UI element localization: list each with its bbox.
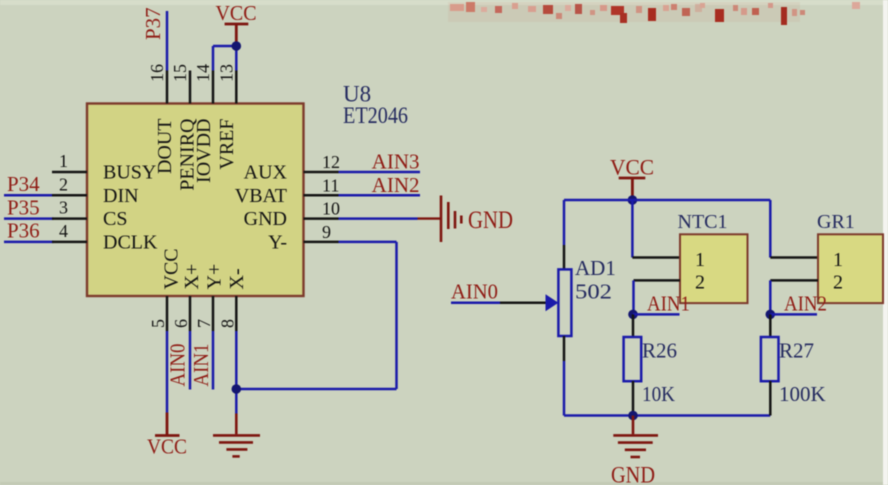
resistor R26 body xyxy=(624,337,642,381)
pin 2 DIN stub xyxy=(52,194,87,197)
thermistor NTC1 body xyxy=(680,234,748,303)
svg-text:AIN3: AIN3 xyxy=(372,150,420,174)
wire P35 xyxy=(4,217,54,220)
junction dot VCC right xyxy=(628,195,638,205)
resistor R27 body xyxy=(761,337,779,381)
junction dot VCC top xyxy=(232,41,242,51)
svg-text:2: 2 xyxy=(59,174,68,194)
svg-text:AIN2: AIN2 xyxy=(784,292,827,316)
wire AIN0 xyxy=(451,301,500,304)
photoresistor GR1 body xyxy=(818,234,883,303)
pin 12 AUX stub xyxy=(304,171,339,174)
wire R26 to ground rail xyxy=(632,381,635,416)
wire NTC1 pin2 to AIN1 node xyxy=(634,280,681,314)
junction dot ground rail xyxy=(628,411,638,421)
svg-text:12: 12 xyxy=(322,152,340,172)
svg-text:GND: GND xyxy=(244,208,287,230)
svg-text:8: 8 xyxy=(217,319,237,328)
svg-text:P36: P36 xyxy=(7,219,40,243)
svg-text:X-: X- xyxy=(226,268,248,289)
junction dot AIN2 xyxy=(766,310,776,320)
svg-text:6: 6 xyxy=(171,319,191,328)
svg-text:ET2046: ET2046 xyxy=(343,103,408,128)
wire VCC to pins 13,14 xyxy=(213,46,236,71)
wire pin 9 to bottom node xyxy=(236,242,396,389)
svg-text:X+: X+ xyxy=(181,264,203,290)
pin 11 VBAT stub xyxy=(304,194,339,197)
pin 9 Y- stub xyxy=(304,241,339,244)
potentiometer AD1 body xyxy=(558,269,571,336)
svg-text:VCC: VCC xyxy=(216,1,257,25)
wire P36 xyxy=(4,241,54,244)
earth ground below chip xyxy=(213,414,260,457)
svg-text:11: 11 xyxy=(322,175,339,195)
svg-text:7: 7 xyxy=(194,319,214,328)
svg-text:VBAT: VBAT xyxy=(235,185,287,207)
wire AIN2 xyxy=(339,194,421,197)
pot AD1 top pin stub xyxy=(563,245,566,270)
svg-text:AIN0: AIN0 xyxy=(166,344,190,387)
wire AIN2 node to R27 xyxy=(769,314,772,337)
wire pot to bottom rail xyxy=(563,361,566,416)
svg-text:R26: R26 xyxy=(642,339,677,363)
svg-text:VREF: VREF xyxy=(216,118,238,169)
wire AIN1 (pin7) xyxy=(212,331,215,390)
svg-text:AUX: AUX xyxy=(244,162,288,184)
svg-text:P34: P34 xyxy=(7,172,40,196)
svg-text:13: 13 xyxy=(216,64,236,82)
pin 13 VREF stub xyxy=(235,71,238,104)
wire top rail xyxy=(564,199,770,202)
wire bottom rail xyxy=(564,414,770,417)
white right margin strip xyxy=(883,0,888,485)
svg-text:Y-: Y- xyxy=(268,231,287,253)
wire R27 to ground rail xyxy=(769,381,772,416)
svg-text:BUSY: BUSY xyxy=(103,162,156,184)
svg-text:502: 502 xyxy=(575,280,612,304)
svg-text:3: 3 xyxy=(59,198,68,218)
wire AIN3 xyxy=(339,171,421,174)
pin 4 DCLK stub xyxy=(52,241,87,244)
wire to GND symbol xyxy=(339,217,418,220)
svg-text:5: 5 xyxy=(148,319,168,328)
wire pin8 to ground xyxy=(235,331,238,414)
power ground right (bars) xyxy=(441,196,461,243)
svg-text:AIN0: AIN0 xyxy=(451,280,498,304)
svg-text:R27: R27 xyxy=(779,339,814,363)
wire rail to pot xyxy=(563,200,566,245)
earth ground right xyxy=(613,416,658,458)
svg-text:100K: 100K xyxy=(779,382,826,406)
svg-text:16: 16 xyxy=(147,64,167,82)
pin 16 DOUT stub xyxy=(166,71,169,104)
svg-text:AD1: AD1 xyxy=(575,256,616,280)
svg-text:GND: GND xyxy=(611,463,655,485)
svg-text:DOUT: DOUT xyxy=(154,119,176,175)
svg-text:NTC1: NTC1 xyxy=(678,211,728,233)
svg-text:VCC: VCC xyxy=(147,435,187,459)
wire P37 xyxy=(166,11,169,71)
svg-text:9: 9 xyxy=(322,222,331,242)
power VCC bottom xyxy=(147,413,187,459)
svg-text:10K: 10K xyxy=(642,382,675,406)
wire pin5 to VCC xyxy=(166,331,169,413)
svg-text:P37: P37 xyxy=(141,7,165,40)
pin 1 BUSY stub xyxy=(52,171,87,174)
svg-text:15: 15 xyxy=(170,64,190,82)
watermark red pixel blocks xyxy=(448,2,860,25)
pin 14 IOVDD stub xyxy=(212,71,215,104)
wire AIN1 stub xyxy=(633,313,680,316)
svg-text:DCLK: DCLK xyxy=(103,231,158,253)
IC U8 body xyxy=(87,104,304,297)
svg-text:GND: GND xyxy=(468,207,513,234)
pin 10 GND stub xyxy=(304,217,339,220)
top light strip xyxy=(0,0,888,5)
svg-text:10: 10 xyxy=(322,199,340,219)
svg-text:AIN1: AIN1 xyxy=(189,344,213,387)
svg-text:2: 2 xyxy=(695,272,705,294)
pin 6 X+ stub xyxy=(189,296,192,331)
pin 3 CS stub xyxy=(52,217,87,220)
wire AIN2 stub xyxy=(770,313,817,316)
wiper arrow xyxy=(546,294,559,311)
svg-text:4: 4 xyxy=(59,221,68,241)
junction dot AIN1 xyxy=(628,310,638,320)
pin 15 PENIRQ stub xyxy=(189,71,192,104)
svg-text:VCC: VCC xyxy=(161,248,183,289)
pin 5 VCC stub xyxy=(166,296,169,331)
wire AIN0 (pin6) xyxy=(189,331,192,390)
wire GR1 pin2 to AIN2 node xyxy=(770,280,818,314)
svg-text:1: 1 xyxy=(695,249,705,271)
svg-text:14: 14 xyxy=(193,64,213,82)
svg-text:DIN: DIN xyxy=(103,185,139,207)
svg-text:CS: CS xyxy=(103,208,127,230)
svg-text:1: 1 xyxy=(833,249,843,271)
wire AIN1 node to R26 xyxy=(632,314,635,337)
svg-text:GR1: GR1 xyxy=(817,211,855,233)
power VCC top xyxy=(216,1,257,42)
svg-text:2: 2 xyxy=(833,272,843,294)
svg-text:P35: P35 xyxy=(7,195,40,219)
power VCC right xyxy=(610,155,654,197)
junction dot pin8 node xyxy=(232,384,242,394)
svg-text:1: 1 xyxy=(59,151,68,171)
wire rail to GR1 pin1 xyxy=(770,200,818,258)
pot AD1 bottom pin stub xyxy=(563,336,566,361)
pin 7 Y+ stub xyxy=(212,296,215,331)
svg-text:AIN1: AIN1 xyxy=(647,292,690,316)
pin 8 X- stub xyxy=(235,296,238,331)
wire P34 xyxy=(4,194,54,197)
svg-text:Y+: Y+ xyxy=(204,264,226,290)
svg-text:VCC: VCC xyxy=(610,155,654,180)
svg-text:AIN2: AIN2 xyxy=(372,173,420,197)
svg-text:IOVDD: IOVDD xyxy=(193,118,215,182)
wire VCC node to NTC1 pin1 xyxy=(632,200,680,258)
bottom shade strip xyxy=(0,482,888,485)
